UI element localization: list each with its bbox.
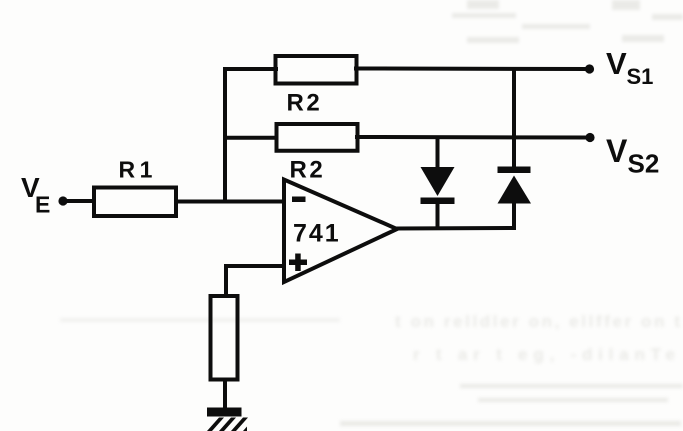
- svg-text:R2: R2: [290, 157, 326, 184]
- svg-text:R1: R1: [119, 157, 157, 183]
- node VS2 label: [606, 133, 659, 179]
- resistor R2 (top): [276, 56, 357, 84]
- svg-text:V: V: [606, 133, 628, 169]
- resistor R2 (second): [277, 124, 358, 151]
- wire op-amp output: [396, 226, 514, 231]
- ground: [207, 408, 248, 431]
- wire bus to R2 top: [225, 67, 276, 71]
- svg-text:S2: S2: [628, 149, 660, 179]
- diode D1 (left, anode up): [421, 167, 455, 204]
- wire right diode branch bottom: [512, 203, 516, 228]
- node VS1 terminal dot: [585, 64, 594, 73]
- wire R2 top to VS1: [356, 67, 588, 72]
- resistor R1: [94, 188, 176, 217]
- wire left diode branch top: [436, 139, 440, 169]
- op-amp minus sign: [292, 197, 306, 203]
- wire R1 to op-amp inverting input: [178, 200, 284, 204]
- wire left diode branch bottom: [436, 203, 440, 228]
- wire bus to R2 second: [225, 136, 277, 140]
- op-amp U1 741 triangle: [284, 180, 397, 283]
- faint bleed-through marks top right: [452, 0, 683, 43]
- svg-text:741: 741: [293, 220, 341, 248]
- svg-text:R2: R2: [287, 90, 323, 117]
- svg-text:t on relldler on, ellffer on t: t on relldler on, ellffer on t: [395, 312, 680, 331]
- node VS1 label: [606, 46, 653, 89]
- wire right diode branch (VS1 down across VS2): [512, 69, 516, 167]
- wire resistor to ground: [223, 380, 227, 409]
- node VE terminal dot: [58, 196, 67, 205]
- svg-text:S1: S1: [627, 64, 654, 89]
- faint bleed-through text bottom right: [60, 312, 683, 426]
- node VS2 terminal dot: [585, 133, 594, 142]
- diode D2 (right, cathode up): [498, 167, 532, 204]
- svg-text:E: E: [35, 192, 50, 218]
- resistor R (vertical, non-inverting input to ground): [211, 296, 238, 380]
- wire VE to R1: [66, 199, 94, 203]
- node VE label: [21, 172, 50, 218]
- wire op-amp + input: [226, 266, 284, 296]
- wire R2 second to VS2: [357, 135, 588, 140]
- op-amp plus sign: [289, 254, 307, 272]
- svg-text:V: V: [606, 46, 627, 81]
- wire vertical feedback bus: [223, 69, 227, 202]
